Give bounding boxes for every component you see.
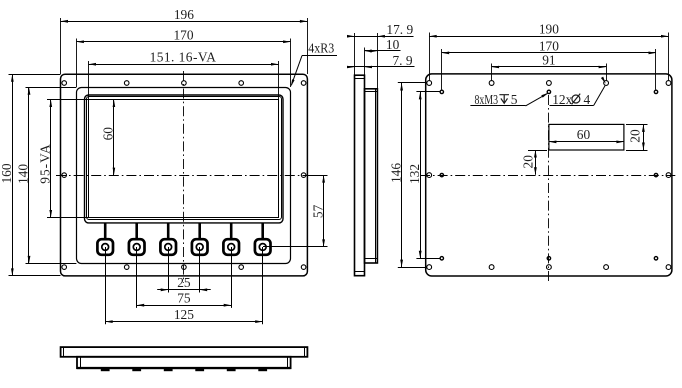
button 5 extension line bbox=[231, 247, 233, 308]
svg-text:132: 132 bbox=[407, 164, 422, 184]
rear through hole bottom 4 (d4) bbox=[604, 265, 609, 270]
button 1 seen in bottom view bbox=[101, 369, 110, 372]
bezel opening 170x140 bbox=[77, 88, 291, 264]
front mounting hole top 3 bbox=[182, 81, 187, 86]
svg-text:146: 146 bbox=[388, 163, 403, 183]
button 4 extension line bbox=[199, 247, 201, 293]
body top edge line bbox=[365, 91, 378, 93]
flange right edge line bbox=[304, 347, 306, 357]
rear through hole bottom 1 (d4) bbox=[427, 265, 432, 270]
rear horizontal centerline bbox=[420, 175, 675, 177]
rear through hole bottom 5 (d4) bbox=[666, 265, 671, 270]
button 1 bbox=[104, 223, 107, 240]
rear through hole top 3 (d4) bbox=[547, 81, 552, 86]
svg-text:170: 170 bbox=[539, 38, 559, 53]
dimension 146 (rear left) bbox=[398, 82, 427, 84]
front mounting hole top 2 bbox=[124, 81, 129, 86]
svg-text:190: 190 bbox=[539, 22, 559, 37]
dimension 20 (cutout height, right) bbox=[626, 124, 648, 126]
svg-text:7. 9: 7. 9 bbox=[392, 53, 412, 68]
front mounting hole mid left bbox=[62, 173, 67, 178]
svg-text:20: 20 bbox=[628, 129, 643, 143]
dimension 140 (left) bbox=[26, 87, 77, 89]
svg-text:8xM3: 8xM3 bbox=[475, 92, 499, 107]
dimension 151.16-VA (top) bbox=[88, 61, 90, 99]
dimension 17.9 (depth) bbox=[354, 33, 356, 75]
rear cover outline bbox=[426, 74, 672, 276]
svg-text:60: 60 bbox=[577, 127, 591, 142]
rear through hole bottom 2 (d4) bbox=[489, 265, 494, 270]
dimension 125 (buttons) bbox=[105, 321, 263, 323]
svg-text:4: 4 bbox=[584, 92, 591, 107]
button 6 bbox=[261, 223, 264, 240]
rear through hole mid right (d4) bbox=[666, 173, 671, 178]
svg-text:196: 196 bbox=[174, 7, 194, 22]
svg-text:125: 125 bbox=[174, 307, 194, 322]
VA active area 151.16x95 bbox=[89, 100, 279, 218]
button 5 seen in bottom view bbox=[227, 369, 236, 372]
button 3 seen in bottom view bbox=[164, 369, 173, 372]
front mounting hole bottom 3 bbox=[182, 265, 187, 270]
button 4 seen in bottom view bbox=[195, 369, 204, 372]
bottom view front flange bbox=[61, 347, 308, 357]
rear through hole top 4 (d4) bbox=[604, 81, 609, 86]
button 2 seen in bottom view bbox=[132, 369, 141, 372]
button 3 bbox=[167, 223, 170, 240]
svg-text:140: 140 bbox=[16, 164, 31, 184]
dimension 20 (cutout offset, left) bbox=[528, 150, 547, 152]
display module inner outline bbox=[87, 97, 282, 220]
front mounting hole bottom 2 bbox=[124, 265, 129, 270]
dimension 160 (left) bbox=[9, 74, 61, 76]
button 3 extension line bbox=[168, 247, 170, 293]
body back edge line bbox=[375, 89, 377, 263]
dimension 190 (rear top) bbox=[429, 33, 431, 81]
rear M3 tapped hole top 2 bbox=[547, 90, 550, 93]
body right edge line bbox=[287, 357, 289, 368]
dimension 170 (top) bbox=[76, 39, 78, 88]
rear M3 tapped hole top 3 bbox=[654, 90, 657, 93]
svg-text:95-VA: 95-VA bbox=[38, 143, 53, 183]
rear through hole mid left (d4) bbox=[427, 173, 432, 178]
button 2 extension line bbox=[136, 247, 138, 308]
rear through hole bottom 3 (d4) bbox=[547, 265, 552, 270]
rear through hole top 1 (d4) bbox=[427, 81, 432, 86]
rear M3 tapped hole mid right bbox=[654, 173, 657, 176]
front mounting hole top 1 bbox=[62, 81, 67, 86]
flange bottom edge line bbox=[355, 271, 365, 273]
button 6 seen in bottom view bbox=[258, 369, 267, 372]
dimension 196 (top) bbox=[60, 18, 62, 74]
svg-text:10: 10 bbox=[386, 37, 400, 52]
dimension 57 (right) bbox=[309, 175, 328, 177]
body bottom thick edge bbox=[77, 367, 291, 369]
rear M3 tapped hole mid left bbox=[440, 173, 443, 176]
front vertical centerline bbox=[183, 71, 185, 283]
button 1 extension line bbox=[105, 247, 107, 324]
button 2 bbox=[135, 223, 138, 240]
dimension 7.9 (depth) bbox=[348, 66, 415, 68]
svg-text:91: 91 bbox=[542, 52, 555, 67]
front mounting hole bottom 1 bbox=[62, 265, 67, 270]
svg-text:170: 170 bbox=[173, 27, 193, 42]
svg-text:60: 60 bbox=[101, 127, 116, 141]
dimension 60 (cutout) bbox=[549, 141, 624, 143]
side view rear body bbox=[365, 89, 378, 263]
front mounting hole bottom 4 bbox=[239, 265, 244, 270]
front mounting hole top 5 bbox=[301, 81, 306, 86]
button 4 bbox=[198, 223, 201, 240]
svg-text:20: 20 bbox=[520, 155, 535, 169]
body left edge line bbox=[80, 357, 82, 368]
svg-text:160: 160 bbox=[0, 163, 14, 183]
svg-text:4xR3: 4xR3 bbox=[308, 41, 334, 56]
svg-text:57: 57 bbox=[310, 204, 325, 218]
rear through hole top 5 (d4) bbox=[666, 81, 671, 86]
bottom view rear body bbox=[77, 357, 291, 368]
svg-text:17. 9: 17. 9 bbox=[386, 22, 413, 37]
rear vertical centerline bbox=[548, 95, 550, 284]
front mounting hole mid right bbox=[301, 173, 306, 178]
dimension 25 (buttons) bbox=[157, 289, 211, 291]
dimension 170 (rear top) bbox=[441, 49, 443, 90]
dimension 95-VA (left) bbox=[47, 99, 89, 101]
connector cutout 60x20 bbox=[549, 124, 624, 150]
dimension 91 (rear top) bbox=[491, 64, 493, 81]
button 5 bbox=[230, 223, 233, 240]
rear M3 tapped hole top 1 bbox=[440, 90, 443, 93]
svg-text:151. 16-VA: 151. 16-VA bbox=[150, 50, 217, 65]
svg-text:5: 5 bbox=[511, 92, 518, 107]
body bottom edge line bbox=[365, 258, 378, 260]
svg-text:75: 75 bbox=[177, 291, 191, 306]
dimension 10 (depth) bbox=[364, 48, 366, 76]
rear through hole top 2 (d4) bbox=[489, 81, 494, 86]
rear M3 tapped hole bottom 2 bbox=[547, 257, 550, 260]
front mounting hole bottom 5 bbox=[301, 265, 306, 270]
button 6 extension line bbox=[262, 247, 264, 324]
svg-text:12x: 12x bbox=[552, 92, 572, 107]
dimension 75 (buttons) bbox=[137, 305, 232, 307]
front horizontal centerline bbox=[56, 175, 313, 177]
svg-text:25: 25 bbox=[177, 275, 191, 290]
dimension 60 (screen) bbox=[113, 100, 115, 176]
side view front flange bbox=[355, 75, 365, 276]
rear M3 tapped hole bottom 3 bbox=[654, 257, 657, 260]
flange left edge line bbox=[63, 347, 65, 357]
flange top edge line bbox=[355, 78, 365, 80]
front mounting hole top 4 bbox=[239, 81, 244, 86]
display module outer outline bbox=[85, 95, 284, 223]
rear M3 tapped hole bottom 1 bbox=[440, 257, 443, 260]
front panel outline 196x160 bbox=[61, 74, 308, 276]
dimension 132 (rear left) bbox=[416, 91, 439, 93]
